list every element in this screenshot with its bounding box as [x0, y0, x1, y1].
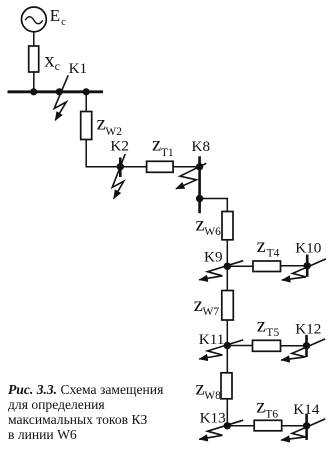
node K14: [303, 422, 310, 429]
label K10: [295, 240, 322, 257]
svg-text:z: z: [257, 235, 266, 257]
node K2 stub: [119, 158, 122, 178]
label zT5: [257, 315, 280, 340]
wire zW7 to K11: [226, 320, 228, 346]
wire bus to zW2: [85, 93, 87, 112]
short-circuit bolt K9: [199, 261, 243, 280]
short-circuit bolt K1: [54, 75, 68, 120]
wire zW8 to K13: [226, 399, 228, 426]
wire zT1 to K8: [173, 166, 200, 168]
label K14: [293, 401, 320, 418]
resistor zT4: [253, 261, 281, 272]
svg-text:c: c: [61, 17, 66, 28]
label zW2: [97, 113, 123, 138]
wire K11 to zT5: [227, 345, 252, 347]
resistor zW7: [222, 291, 234, 321]
resistor zT6: [254, 420, 282, 431]
svg-text:K11: K11: [199, 331, 225, 348]
svg-text:K2: K2: [110, 138, 129, 155]
node K9: [224, 263, 231, 270]
label xc: [44, 49, 60, 73]
short-circuit bolt K13: [199, 420, 243, 439]
svg-text:T6: T6: [265, 409, 278, 421]
svg-text:K9: K9: [204, 248, 223, 265]
AC source Ec: [22, 7, 47, 32]
svg-text:c: c: [55, 59, 60, 73]
short-circuit bolt K14: [281, 419, 325, 440]
wire zW6 to K9: [226, 240, 228, 266]
wire K8 to zW6: [200, 199, 228, 212]
resistor zT1: [147, 161, 174, 172]
node dot bus right: [83, 88, 90, 95]
svg-text:z: z: [256, 396, 265, 418]
svg-text:T4: T4: [267, 248, 280, 260]
wire K9 to zT4: [227, 265, 253, 267]
resistor zT5: [253, 340, 281, 351]
label Ec: [50, 6, 67, 28]
wire zT5 to K12: [281, 345, 307, 347]
label zW6: [196, 214, 222, 238]
svg-text:K1: K1: [69, 60, 88, 77]
bus bar: [8, 90, 104, 93]
label K11: [199, 331, 225, 348]
svg-text:z: z: [152, 134, 161, 156]
node K12: [303, 342, 310, 349]
reactance xc: [29, 46, 39, 72]
node K10 stub: [306, 255, 309, 277]
wire K9 to zW7: [226, 266, 228, 290]
svg-text:z: z: [196, 214, 205, 236]
svg-text:W6: W6: [204, 226, 221, 238]
short-circuit bolt K8: [176, 163, 206, 189]
node K8 lower junction: [196, 195, 203, 202]
node K13: [224, 422, 231, 429]
caption: [8, 382, 208, 442]
label K8: [192, 138, 211, 155]
resistor zW8: [221, 373, 232, 399]
short-circuit bolt K11: [199, 340, 243, 359]
label K12: [295, 321, 321, 338]
svg-text:T1: T1: [161, 147, 174, 159]
svg-text:W7: W7: [203, 306, 220, 318]
wire zT6 to K14: [282, 425, 307, 427]
svg-text:x: x: [44, 49, 54, 71]
resistor zW6: [222, 212, 233, 240]
resistor zW2: [81, 112, 92, 140]
wire K11 to zW8: [226, 346, 228, 373]
svg-text:z: z: [194, 294, 203, 316]
node K14 stub: [305, 414, 308, 440]
label K2: [110, 138, 129, 155]
svg-text:W2: W2: [105, 126, 122, 138]
svg-text:z: z: [97, 113, 106, 135]
node K8 vertical line: [198, 156, 201, 213]
label K9: [204, 248, 223, 265]
wire xc to bus: [33, 72, 35, 91]
node K2: [117, 163, 124, 170]
wire zT4 to K10: [281, 265, 308, 267]
svg-text:K12: K12: [295, 321, 321, 338]
label zW8: [196, 378, 222, 402]
wire zW2 to K2: [86, 140, 146, 167]
svg-text:K14: K14: [293, 401, 320, 418]
label zT4: [257, 235, 280, 260]
short-circuit bolt K10: [282, 259, 326, 280]
node K8: [196, 163, 203, 170]
label zT1: [152, 134, 174, 159]
short-circuit bolt K12: [281, 339, 325, 360]
svg-text:E: E: [50, 6, 60, 25]
short-circuit bolt K2: [112, 154, 125, 199]
node dot bus left: [30, 88, 37, 95]
label K13: [200, 410, 226, 427]
wire K13 to zT6: [227, 425, 254, 427]
label K1: [69, 60, 88, 77]
svg-text:T5: T5: [266, 327, 279, 339]
svg-text:z: z: [257, 315, 266, 337]
node K12 stub: [305, 335, 308, 357]
wire source to xc: [33, 32, 35, 47]
node K10: [304, 262, 311, 269]
svg-text:K10: K10: [295, 240, 322, 257]
label zW7: [194, 294, 220, 318]
label zT6: [256, 396, 278, 421]
node K11: [224, 342, 231, 349]
svg-text:K8: K8: [192, 138, 211, 155]
node K1: [56, 88, 63, 95]
